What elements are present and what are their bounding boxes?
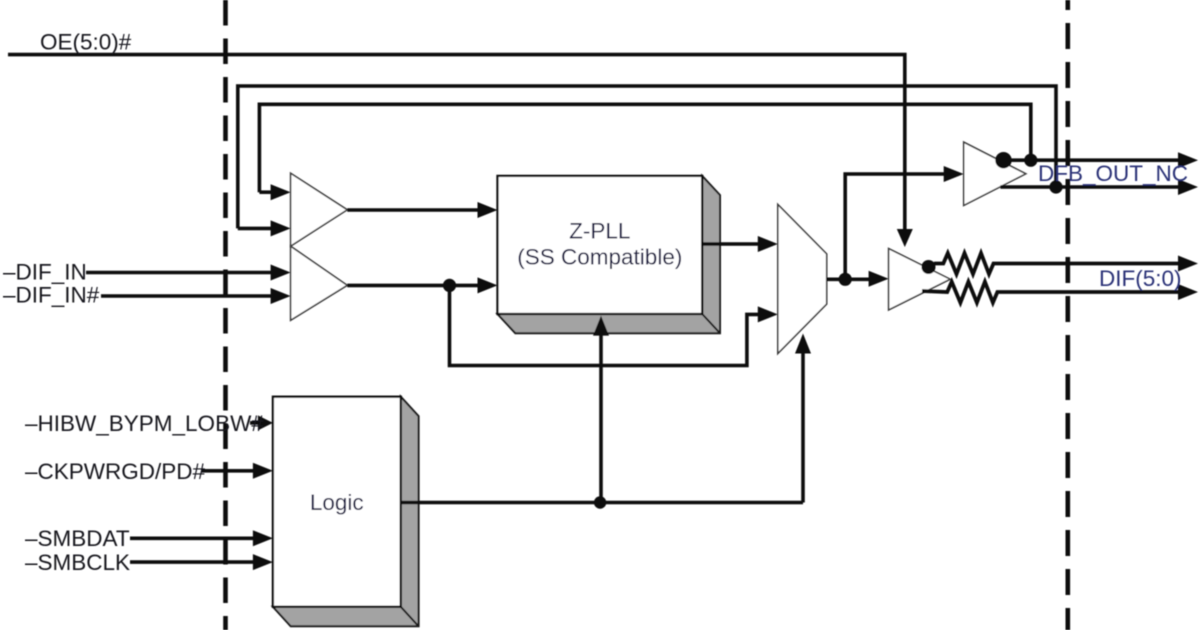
wire Z-PLL output to mux upper input — [702, 236, 778, 252]
chip boundary dashed line left — [223, 0, 228, 630]
output buffer T3 (DFB feedback buffer) — [964, 142, 1026, 205]
svg-text:DIF(5:0): DIF(5:0) — [1099, 266, 1182, 291]
Z-PLL box shadow — [498, 176, 721, 333]
svg-text:(SS Compatible): (SS Compatible) — [517, 245, 682, 270]
wire HIBW_BYPM_LOBW# input — [250, 415, 273, 430]
resistor R2 (lower series resistor) and DIF lower output line — [922, 282, 1198, 303]
svg-text:–CKPWRGD/PD#: –CKPWRGD/PD# — [25, 459, 206, 484]
node junction F2 on DFB upper line — [1024, 154, 1037, 167]
wire Logic to mux bottom select input — [795, 334, 811, 503]
node junction on T2 output — [443, 279, 456, 292]
label HIBW_BYPM_LOBW# — [25, 411, 264, 436]
wire OE(5:0)# net: horizontal run and drop to output buffer enable — [8, 55, 913, 247]
svg-text:–DIF_IN#: –DIF_IN# — [3, 283, 100, 308]
input buffer T1 (feedback diff receiver) — [291, 173, 348, 246]
label DIF_IN — [3, 260, 87, 285]
svg-text:Logic: Logic — [310, 490, 364, 515]
svg-text:OE(5:0)#: OE(5:0)# — [40, 30, 132, 55]
Logic box shadow — [273, 397, 419, 627]
svg-text:–SMBCLK: –SMBCLK — [25, 550, 130, 575]
wire mux output to DIF output buffer — [827, 271, 889, 287]
label CKPWRGD/PD# — [25, 459, 206, 484]
wire DFB upper output line — [999, 152, 1198, 168]
mux M1 trapezoid — [778, 204, 827, 353]
wire DFB lower output line — [1000, 179, 1198, 195]
svg-text:–SMBDAT: –SMBDAT — [25, 526, 130, 551]
wire CKPWRGD/PD# input — [201, 463, 273, 479]
label DIF(5:0) — [1099, 266, 1182, 291]
svg-text:–HIBW_BYPM_LOBW#: –HIBW_BYPM_LOBW# — [25, 411, 264, 436]
svg-text:Z-PLL: Z-PLL — [569, 219, 630, 244]
wire SMBCLK input — [130, 554, 273, 570]
chip boundary dashed line right — [1066, 0, 1071, 630]
label SMBDAT — [25, 526, 130, 551]
wire T1 output to Z-PLL upper input — [347, 202, 497, 218]
wire mux output branch up to DFB buffer — [845, 166, 964, 279]
output buffer T4 (DIF output buffer) — [889, 249, 951, 311]
node junction on T4 upper edge — [922, 260, 936, 274]
label DIF_IN# — [3, 283, 100, 308]
wire T2 output to Z-PLL lower input — [347, 277, 497, 293]
node junction F1 on DFB lower line — [1049, 180, 1062, 193]
Z-PLL box U1 — [498, 176, 703, 314]
wire Logic output run — [401, 501, 803, 505]
label DFB_OUT_NC — [1038, 161, 1188, 186]
input buffer T2 (DIF_IN diff receiver) — [291, 246, 348, 320]
wire feedback net F1 (outer): from DFB lower line to T1 lower input — [238, 86, 1056, 236]
wire SMBDAT input — [130, 530, 273, 546]
label OE(5:0)# — [40, 30, 132, 55]
wire DIF_IN# input — [101, 288, 291, 304]
wire Logic to Z-PLL bottom control input — [593, 316, 609, 503]
wire DIF_IN input — [86, 265, 291, 281]
label SMBCLK — [25, 550, 130, 575]
node big junction at DFB buffer top edge — [995, 152, 1011, 168]
resistor R1 (upper series resistor) and DIF upper output line — [929, 253, 1199, 274]
wire T2 output branch to mux lower input — [450, 285, 778, 365]
node junction on mux output — [839, 273, 852, 286]
node junction on Logic output — [594, 496, 606, 508]
Logic box U2 — [273, 397, 401, 607]
wire feedback net F2 (inner): from DFB upper line to T1 upper input — [259, 104, 1030, 200]
svg-text:DFB_OUT_NC: DFB_OUT_NC — [1038, 161, 1188, 186]
svg-text:–DIF_IN: –DIF_IN — [3, 260, 87, 285]
